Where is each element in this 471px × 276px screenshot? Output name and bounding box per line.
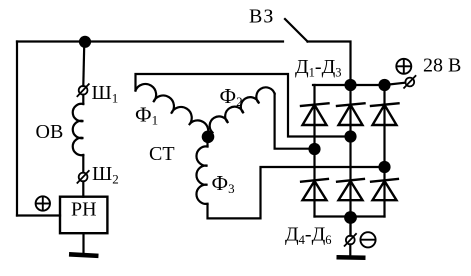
node: stator star point [202,131,215,144]
wire: bottom-left horizontal to RN box [17,214,60,216]
regulator RN box [60,197,107,234]
svg-text:РН: РН [71,199,97,221]
wire: junction down to Sh1 terminal [83,42,84,86]
wire: bridge right column [383,85,385,217]
svg-text:Д4-Д6: Д4-Д6 [285,224,331,248]
wire: Sh1 to OV coil [82,95,84,104]
ground at negative terminal [336,255,365,260]
wire: star to F3 coil [206,141,208,147]
wire: RN box bottom stem to ground [82,233,84,254]
terminal +28V [404,76,415,88]
inductor F2 (stator phase 2) [210,87,275,132]
node: right column phase tap [378,161,390,173]
wire: bridge left column [313,85,315,217]
svg-text:ОВ: ОВ [36,121,64,143]
wire: negative tap down to terminal [349,218,351,236]
svg-text:28 В: 28 В [423,55,461,77]
terminal negative [345,234,356,246]
wire: left vertical bus [16,42,18,216]
wire: negative terminal to ground [349,244,351,254]
ground under RN [69,252,99,258]
plus polarity symbol at RN [36,196,50,210]
inductor F3 (stator phase 3) [196,146,207,204]
inductor F1 (stator phase 1) [136,84,209,137]
plus symbol at 28V [396,59,411,74]
inductor OV (field winding) [73,104,84,155]
node: top rail at switch column [344,79,356,91]
node: top rail at right column [378,79,390,91]
node: left column phase tap [308,143,320,155]
wire: top rail from left bus to switch gap [17,40,283,42]
diode D4 [301,179,328,200]
wire: bridge middle column [349,85,351,236]
node: middle column phase tap [344,130,356,142]
wire: top rail to +28V terminal [385,83,406,85]
diode D5 [337,179,364,200]
wire: phase F1 lead to middle column [136,74,346,137]
switch VZ blade [285,19,308,42]
wire: OV coil to Sh2 [82,155,84,173]
diode D3 [371,103,399,125]
terminal Sh2 [77,171,88,183]
node: bottom rail negative tap [344,211,357,224]
svg-text:СТ: СТ [149,143,175,165]
diode D2 [337,103,365,125]
terminal Sh1 [77,84,88,96]
minus symbol at negative terminal [360,232,375,247]
wire: Sh2 down to RN box [82,181,84,196]
diode D6 [371,179,398,200]
svg-text:Д1-Д3: Д1-Д3 [295,56,341,80]
node junction top-left [79,36,91,48]
wire: phase F3 lead to right column [208,167,385,218]
wire: switch to down corner [308,42,351,86]
svg-text:ВЗ: ВЗ [249,6,274,28]
wire: bridge bottom rail [315,215,385,217]
wire: phase F2 lead to left column [275,94,309,149]
wire: bridge top rail [313,84,385,86]
diode D1 [301,103,329,125]
